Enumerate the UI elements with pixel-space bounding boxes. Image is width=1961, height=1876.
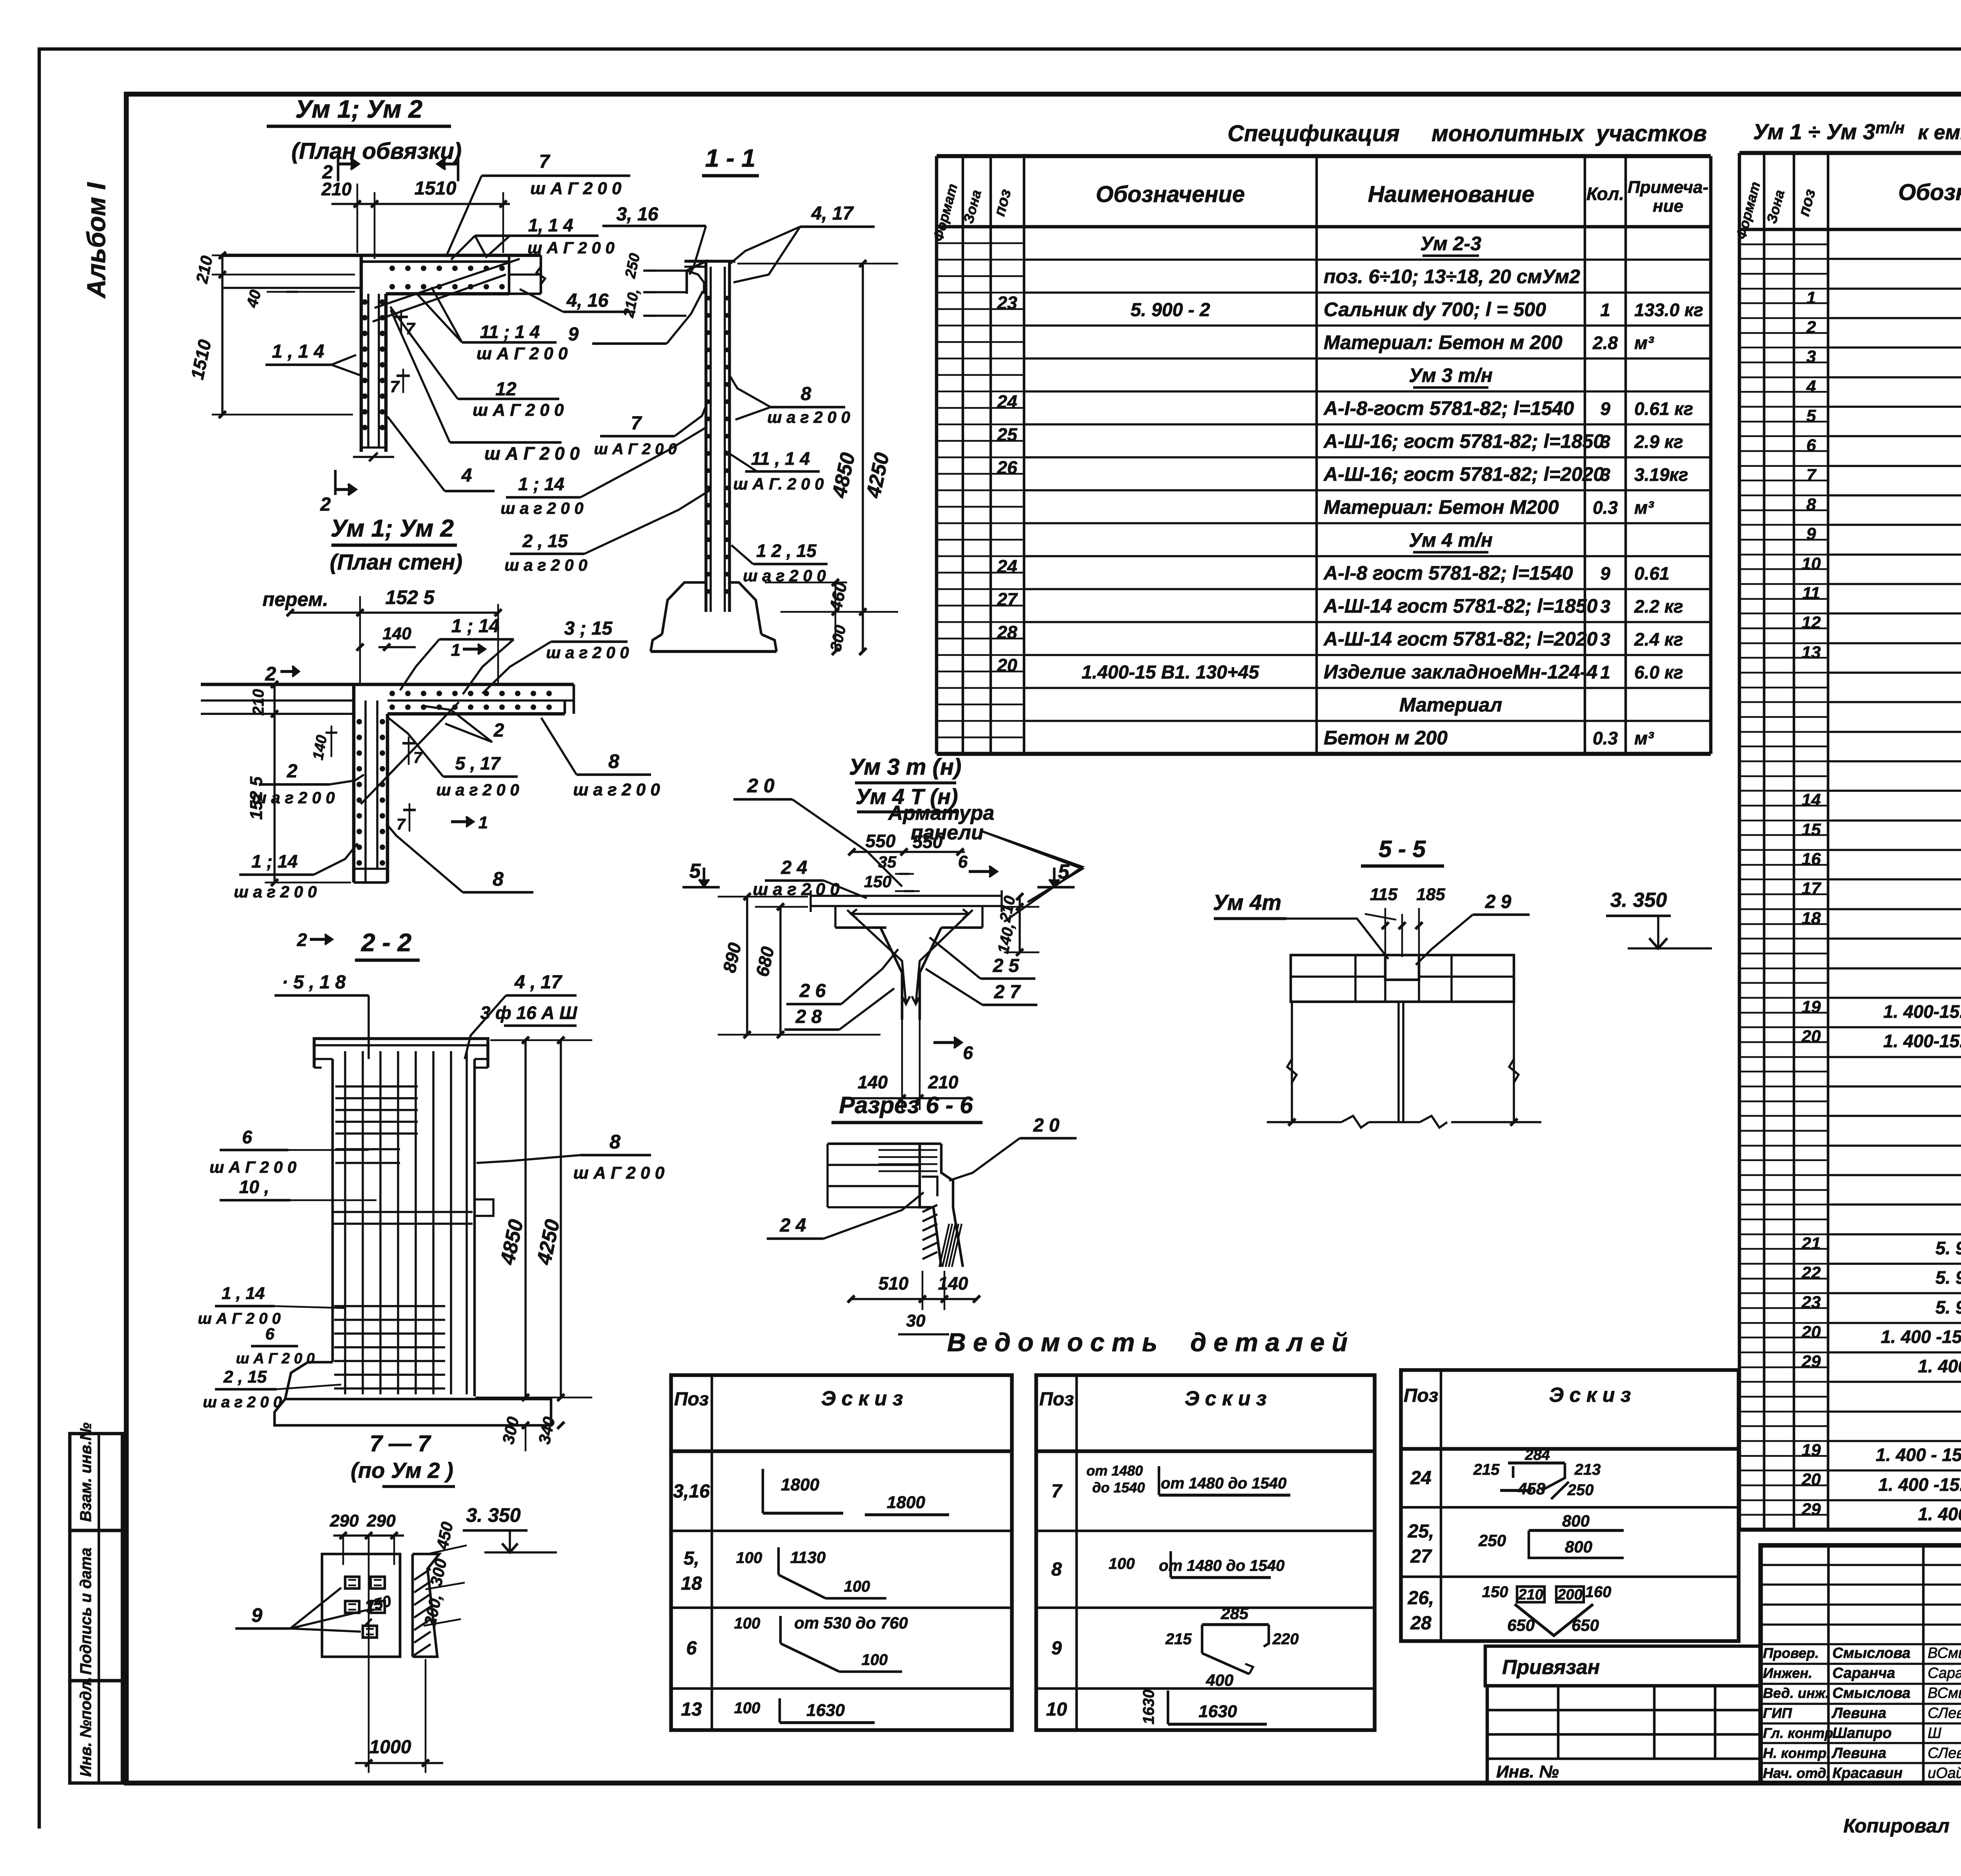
svg-text:12: 12 [1802, 613, 1821, 632]
5-5 slab [1291, 955, 1514, 1002]
7-7 wall section hatched [399, 1554, 402, 1657]
svg-text:Шапиро: Шапиро [1832, 1725, 1892, 1741]
svg-text:9: 9 [1600, 563, 1610, 584]
svg-text:17: 17 [1802, 879, 1822, 898]
svg-text:2: 2 [322, 162, 333, 183]
svg-text:ГИП: ГИП [1763, 1705, 1792, 1721]
svg-text:550: 550 [913, 832, 943, 852]
5-5 below joint [1397, 1002, 1400, 1122]
svg-text:Ум 1; Ум 2: Ум 1; Ум 2 [295, 95, 422, 123]
svg-text:ш А Г 2 0 0: ш А Г 2 0 0 [528, 238, 615, 257]
svg-text:0.3: 0.3 [1593, 497, 1618, 518]
svg-text:1 , 1 4: 1 , 1 4 [272, 341, 324, 362]
svg-text:20: 20 [997, 655, 1017, 675]
svg-text:35: 35 [878, 853, 897, 871]
svg-text:213: 213 [1574, 1461, 1601, 1478]
svg-text:9: 9 [251, 1604, 262, 1626]
svg-text:Левина: Левина [1831, 1705, 1886, 1721]
svg-text:(План стен): (План стен) [330, 550, 462, 574]
svg-text:215: 215 [1473, 1461, 1500, 1478]
svg-text:от 1480 до 1540: от 1480 до 1540 [1161, 1475, 1286, 1492]
svg-text:650: 650 [1507, 1616, 1535, 1634]
svg-text:Привязан: Привязан [1502, 1656, 1600, 1679]
svg-text:9: 9 [1806, 524, 1816, 544]
svg-text:· 5 , 1 8: · 5 , 1 8 [282, 972, 346, 993]
svg-text:Бетон м 200: Бетон м 200 [1324, 727, 1448, 749]
svg-text:ш а г 2 0 0: ш а г 2 0 0 [436, 781, 519, 799]
svg-text:Наименование: Наименование [1368, 182, 1534, 207]
svg-text:А-Ш-16; гост 5781-82; l=2020: А-Ш-16; гост 5781-82; l=2020 [1323, 463, 1604, 485]
svg-text:Инв. №: Инв. № [1496, 1762, 1559, 1781]
svg-text:2 9: 2 9 [1485, 892, 1512, 912]
plan obvyazki rebar dots [389, 266, 395, 271]
svg-text:А-Ш-14 гост 5781-82; l=1850: А-Ш-14 гост 5781-82; l=1850 [1323, 595, 1598, 617]
um3t dims left 890 680 [746, 896, 748, 1035]
plan obvyazki walls [221, 254, 541, 257]
svg-text:1130: 1130 [790, 1548, 826, 1567]
left margin box Podpis i data [70, 1530, 122, 1681]
svg-text:ш А Г 2 0 0: ш А Г 2 0 0 [530, 179, 622, 198]
svg-text:1. 400-15. В1. 130- 45: 1. 400-15. В1. 130- 45 [1883, 1031, 1961, 1051]
svg-text:152 5: 152 5 [385, 586, 435, 608]
svg-text:3: 3 [1600, 464, 1610, 485]
svg-text:Спецификация: Спецификация [1228, 121, 1400, 146]
svg-text:Изделие закладноеМн-124-4: Изделие закладноеМн-124-4 [1324, 661, 1597, 683]
svg-text:ш А Г 2 0 0: ш А Г 2 0 0 [209, 1158, 297, 1176]
svg-text:ш а г 2 0 0: ш а г 2 0 0 [546, 643, 629, 662]
svg-text:10: 10 [1046, 1699, 1067, 1720]
svg-text:7: 7 [406, 319, 415, 338]
svg-text:Вед. инж.: Вед. инж. [1763, 1685, 1829, 1701]
svg-text:140: 140 [938, 1273, 968, 1294]
svg-text:210: 210 [1518, 1587, 1543, 1603]
svg-text:115: 115 [1370, 885, 1398, 904]
svg-text:100: 100 [734, 1699, 760, 1717]
svg-text:13: 13 [681, 1699, 702, 1720]
um3t funnel [880, 928, 902, 1020]
2-2 dims right [524, 1039, 527, 1398]
svg-text:Красавин: Красавин [1832, 1765, 1903, 1781]
svg-text:ш А Г 2 0 0: ш А Г 2 0 0 [594, 440, 677, 458]
2-2 right tab [475, 1199, 493, 1216]
svg-text:18: 18 [681, 1573, 702, 1594]
svg-text:Смыслова: Смыслова [1832, 1685, 1910, 1701]
svg-text:Саран: Саран [1928, 1665, 1961, 1681]
svg-text:монолитных: монолитных [1432, 121, 1585, 146]
svg-text:20: 20 [1801, 1470, 1821, 1489]
svg-text:ш а г 2 0 0: ш а г 2 0 0 [500, 499, 584, 517]
svg-text:2 7: 2 7 [994, 982, 1021, 1003]
svg-text:Инжен.: Инжен. [1763, 1665, 1812, 1681]
svg-text:100: 100 [844, 1578, 870, 1595]
sketch table 1 [671, 1375, 1012, 1730]
svg-text:1 2 , 15: 1 2 , 15 [756, 540, 817, 561]
svg-text:1. 400 -15. В1, 130 - 45: 1. 400 -15. В1, 130 - 45 [1878, 1474, 1961, 1495]
svg-text:650: 650 [1572, 1616, 1599, 1634]
svg-text:Ш: Ш [1928, 1725, 1941, 1741]
1-1 dim 460 300 [835, 582, 837, 612]
svg-text:3 ф 16 А Ш: 3 ф 16 А Ш [480, 1003, 578, 1023]
svg-text:510: 510 [879, 1273, 909, 1294]
svg-text:5. 900 - 2: 5. 900 - 2 [1936, 1238, 1961, 1258]
um3t arrows in funnel [902, 996, 910, 1004]
svg-text:Обозначение: Обозначение [1898, 180, 1961, 205]
svg-text:1800: 1800 [887, 1493, 925, 1512]
svg-text:19: 19 [1802, 997, 1821, 1017]
2-2 vertical rebars [344, 1051, 346, 1394]
svg-text:3. 350: 3. 350 [1610, 889, 1667, 912]
sketch table 2 [1036, 1375, 1375, 1730]
svg-text:19: 19 [1802, 1441, 1821, 1460]
svg-text:ВСмы: ВСмы [1928, 1645, 1961, 1661]
svg-text:400: 400 [1206, 1671, 1233, 1689]
svg-text:Э с к и з: Э с к и з [1549, 1384, 1631, 1407]
svg-text:Поз: Поз [1404, 1385, 1438, 1406]
svg-text:1: 1 [1600, 662, 1610, 682]
5-5 bottom line [1267, 1121, 1341, 1123]
svg-text:Инв. №подл.: Инв. №подл. [77, 1677, 95, 1777]
svg-text:Альбом I: Альбом I [82, 182, 111, 299]
plan sten dim left 210 1525 [273, 684, 276, 883]
svg-text:2 6: 2 6 [799, 981, 826, 1001]
svg-text:Саранча: Саранча [1832, 1665, 1895, 1681]
svg-text:8: 8 [493, 868, 504, 890]
svg-text:ш А Г. 2 0 0: ш А Г. 2 0 0 [733, 475, 824, 493]
svg-text:Взам. инв.№: Взам. инв.№ [77, 1423, 95, 1522]
dim 210 1510 top [331, 203, 510, 205]
svg-text:12: 12 [495, 379, 517, 400]
svg-text:160: 160 [1585, 1583, 1612, 1601]
svg-text:до 1540: до 1540 [1092, 1479, 1145, 1496]
svg-text:д е т а л е й: д е т а л е й [1190, 1328, 1348, 1357]
svg-text:1. 400 - 6 / 76: 1. 400 - 6 / 76 [1918, 1356, 1961, 1376]
svg-text:А-Ш-16; гост 5781-82; l=1850: А-Ш-16; гост 5781-82; l=1850 [1323, 430, 1604, 452]
svg-text:6: 6 [265, 1325, 275, 1343]
svg-text:1 , 14: 1 , 14 [222, 1284, 265, 1303]
svg-text:6.0 кг: 6.0 кг [1634, 662, 1683, 682]
svg-text:5: 5 [1806, 406, 1816, 426]
svg-text:15: 15 [1802, 820, 1821, 839]
svg-text:7: 7 [413, 749, 423, 766]
svg-text:3: 3 [1600, 629, 1610, 650]
svg-text:1 ; 14: 1 ; 14 [251, 851, 298, 872]
svg-text:1630: 1630 [806, 1701, 845, 1720]
svg-text:250: 250 [1567, 1481, 1594, 1499]
svg-text:2 4: 2 4 [781, 857, 808, 878]
svg-text:100: 100 [734, 1615, 760, 1632]
svg-text:9: 9 [1600, 398, 1610, 419]
svg-text:участков: участков [1595, 121, 1707, 146]
svg-text:2: 2 [265, 663, 276, 685]
2-2 foundation [285, 1362, 333, 1399]
svg-text:550: 550 [866, 831, 896, 851]
svg-text:1630: 1630 [1140, 1690, 1157, 1725]
svg-text:4, 16: 4, 16 [566, 290, 609, 311]
svg-text:3. 350: 3. 350 [466, 1504, 520, 1526]
svg-text:2 , 15: 2 , 15 [223, 1367, 267, 1387]
svg-text:1.400-15 В1. 130+45: 1.400-15 В1. 130+45 [1082, 662, 1260, 683]
svg-text:Поз: Поз [674, 1389, 709, 1410]
svg-text:13: 13 [1802, 643, 1821, 662]
svg-text:0.61 кг: 0.61 кг [1634, 398, 1693, 419]
svg-text:ш А Г 2 0 0: ш А Г 2 0 0 [484, 443, 580, 464]
svg-text:1: 1 [1600, 300, 1610, 320]
specification table left [935, 156, 939, 754]
svg-text:3 ; 15: 3 ; 15 [564, 618, 613, 639]
svg-text:3,16: 3,16 [673, 1481, 710, 1502]
svg-text:4: 4 [461, 465, 472, 486]
svg-text:5. 900 - 2: 5. 900 - 2 [1936, 1267, 1961, 1288]
svg-text:140: 140 [858, 1072, 888, 1092]
svg-text:23: 23 [1801, 1293, 1821, 1312]
svg-text:290: 290 [329, 1511, 359, 1530]
2-2 horizontal rebars upper [335, 1085, 418, 1088]
svg-text:1000: 1000 [369, 1737, 411, 1758]
svg-text:5,: 5, [684, 1548, 699, 1569]
svg-text:2 4: 2 4 [780, 1215, 806, 1236]
svg-text:Провер.: Провер. [1763, 1645, 1819, 1661]
svg-text:133.0 кг: 133.0 кг [1634, 300, 1703, 320]
7-7 dim 1000 [368, 1628, 370, 1773]
svg-text:1: 1 [451, 640, 460, 660]
svg-text:ш А Г 2 0 0: ш А Г 2 0 0 [236, 1350, 315, 1367]
svg-text:м³: м³ [1634, 728, 1654, 748]
svg-text:100: 100 [862, 1651, 888, 1669]
svg-text:26: 26 [997, 457, 1017, 478]
svg-text:28: 28 [1410, 1613, 1432, 1634]
svg-text:Сальник dy 700; l = 500: Сальник dy 700; l = 500 [1324, 298, 1546, 320]
2-2 horizontal rebars lower [334, 1305, 445, 1307]
svg-text:6: 6 [686, 1638, 697, 1659]
svg-text:перем.: перем. [262, 588, 328, 610]
svg-text:ш а г 2 0 0: ш а г 2 0 0 [767, 408, 850, 426]
um3t dims right 210 140 [1019, 896, 1021, 953]
svg-text:2: 2 [320, 494, 331, 515]
svg-text:0.3: 0.3 [1593, 728, 1618, 748]
svg-text:7: 7 [390, 377, 400, 396]
svg-text:10: 10 [1802, 554, 1821, 573]
svg-text:210: 210 [928, 1072, 959, 1092]
svg-text:200: 200 [1557, 1587, 1582, 1603]
um3t mark 6 bottom [933, 1041, 961, 1044]
svg-text:Ум 1; Ум 2: Ум 1; Ум 2 [331, 515, 454, 542]
svg-text:20: 20 [1801, 1323, 1821, 1342]
svg-text:18: 18 [1802, 909, 1821, 928]
um3t slab [811, 895, 1002, 897]
svg-text:0.61: 0.61 [1634, 563, 1670, 584]
svg-text:1. 400-15. В1. 120- 65: 1. 400-15. В1. 120- 65 [1883, 1001, 1961, 1022]
svg-text:6: 6 [242, 1127, 252, 1147]
svg-text:от 530 до 760: от 530 до 760 [794, 1614, 908, 1632]
svg-text:5 - 5: 5 - 5 [1379, 836, 1426, 862]
specification table right [1738, 153, 1741, 1530]
left margin box Inv N podl [70, 1681, 122, 1783]
svg-text:3, 16: 3, 16 [617, 204, 659, 225]
svg-text:6: 6 [1806, 436, 1816, 455]
sketch table 3 [1401, 1370, 1739, 1641]
svg-text:ние: ние [1653, 197, 1683, 216]
um3t mark 6 top [969, 870, 996, 873]
plan sten dim 140 [331, 726, 333, 757]
svg-text:ш А Г 2 0 0: ш А Г 2 0 0 [573, 1163, 665, 1183]
svg-text:5 , 17: 5 , 17 [455, 753, 501, 773]
svg-text:20: 20 [1801, 1027, 1821, 1046]
svg-text:Смыслова: Смыслова [1832, 1645, 1910, 1661]
svg-text:11: 11 [1802, 584, 1820, 603]
svg-text:290: 290 [366, 1511, 396, 1530]
svg-text:5. 900 - 2: 5. 900 - 2 [1131, 300, 1210, 320]
svg-text:140: 140 [382, 624, 411, 643]
dim 40 small [267, 291, 355, 293]
svg-text:1 ; 14: 1 ; 14 [518, 474, 564, 494]
svg-text:16: 16 [1802, 850, 1821, 869]
svg-text:2 , 15: 2 , 15 [522, 531, 568, 551]
svg-text:от 1480: от 1480 [1086, 1463, 1143, 1479]
svg-text:4: 4 [1806, 377, 1816, 396]
svg-text:ш А Г 2 0 0: ш А Г 2 0 0 [473, 400, 564, 420]
svg-text:2.9 кг: 2.9 кг [1634, 431, 1683, 452]
svg-text:2.4 кг: 2.4 кг [1634, 629, 1683, 650]
plan sten small 7 markers [408, 737, 410, 765]
svg-text:Обозначение: Обозначение [1096, 182, 1245, 207]
svg-text:Н. контр.: Н. контр. [1763, 1745, 1830, 1761]
bottom tick of wall [353, 456, 394, 458]
plan sten walls [201, 683, 574, 686]
plan sten mark 1 top [463, 648, 484, 651]
svg-text:иОай: иОай [1928, 1765, 1961, 1781]
svg-text:1800: 1800 [781, 1475, 819, 1494]
svg-text:210: 210 [250, 689, 267, 716]
svg-text:23: 23 [997, 293, 1017, 313]
svg-text:Э с к и з: Э с к и з [821, 1387, 903, 1410]
svg-text:5. 900 - 2: 5. 900 - 2 [1936, 1297, 1961, 1317]
svg-text:284: 284 [1524, 1447, 1550, 1463]
svg-text:25,: 25, [1408, 1521, 1434, 1542]
svg-text:3: 3 [1806, 347, 1816, 366]
svg-text:100: 100 [1109, 1555, 1135, 1572]
section mark 1 top [457, 157, 460, 181]
svg-text:3: 3 [1600, 596, 1610, 617]
svg-text:1 - 1: 1 - 1 [705, 144, 755, 172]
plan sten diagonal [361, 702, 459, 804]
razrez 6-6 body [828, 1143, 941, 1145]
svg-text:1510: 1510 [415, 178, 457, 199]
svg-text:ш а г 2 0 0: ш а г 2 0 0 [203, 1394, 282, 1411]
svg-text:14: 14 [1802, 790, 1821, 810]
svg-text:Материал: Материал [1399, 694, 1502, 716]
svg-text:А-Ш-14 гост 5781-82; l=2020: А-Ш-14 гост 5781-82; l=2020 [1323, 628, 1598, 650]
svg-text:29: 29 [1801, 1500, 1821, 1519]
svg-text:29: 29 [1801, 1352, 1821, 1371]
svg-text:4, 17: 4, 17 [811, 203, 854, 224]
svg-text:1: 1 [478, 813, 488, 832]
plan sten dots [389, 691, 395, 696]
svg-text:Материал: Бетон м 200: Материал: Бетон м 200 [1324, 331, 1563, 353]
svg-text:1: 1 [1806, 288, 1816, 308]
svg-text:Ум 2-3: Ум 2-3 [1420, 233, 1481, 255]
svg-text:150: 150 [864, 872, 891, 891]
svg-text:2: 2 [287, 761, 298, 782]
svg-text:1. 400 - 15. В1,12 0 - 65: 1. 400 - 15. В1,12 0 - 65 [1876, 1445, 1961, 1465]
svg-text:3.19кг: 3.19кг [1634, 464, 1688, 485]
svg-text:3: 3 [1600, 431, 1610, 452]
svg-text:1, 1 4: 1, 1 4 [528, 215, 573, 235]
1-1 dim 4850 4250 [862, 263, 864, 651]
leader shag 200 lower [450, 441, 562, 444]
svg-text:2.8: 2.8 [1592, 333, 1618, 353]
svg-text:Поз: Поз [1039, 1389, 1074, 1410]
svg-text:СЛевин: СЛевин [1928, 1745, 1961, 1761]
svg-text:28: 28 [997, 622, 1017, 642]
svg-text:к емкостям: к емкостям [1918, 121, 1961, 144]
svg-text:м³: м³ [1634, 333, 1654, 353]
plan obvyazki vertical band [360, 255, 363, 452]
2-2 horizontal rebars mid [333, 1211, 473, 1213]
svg-text:4 , 17: 4 , 17 [514, 972, 562, 993]
sketch 3,16 [762, 1469, 764, 1513]
svg-text:Левина: Левина [1831, 1745, 1886, 1761]
svg-text:1. 400 - 6 / 76: 1. 400 - 6 / 76 [1918, 1504, 1961, 1524]
svg-text:27: 27 [997, 589, 1018, 610]
svg-text:ш А Г 2 0 0: ш А Г 2 0 0 [477, 344, 568, 363]
svg-text:1630: 1630 [1199, 1702, 1237, 1721]
title block outer [1761, 1545, 1961, 1783]
svg-text:Нач. отд.: Нач. отд. [1763, 1765, 1830, 1781]
bottom section mark 2 [334, 470, 337, 495]
svg-text:2 0: 2 0 [747, 775, 775, 797]
svg-text:250: 250 [1478, 1531, 1506, 1550]
section mark 2 top [337, 157, 340, 181]
svg-text:458: 458 [1517, 1479, 1546, 1498]
7-7 plates [345, 1577, 359, 1589]
svg-text:22: 22 [1801, 1263, 1821, 1283]
svg-text:(по Ум 2 ): (по Ум 2 ) [351, 1458, 453, 1483]
section 1-1 top small lines [643, 269, 688, 272]
svg-text:2: 2 [297, 930, 307, 950]
svg-text:м³: м³ [1634, 497, 1654, 518]
svg-text:800: 800 [1565, 1538, 1592, 1556]
svg-text:от 1480 до 1540: от 1480 до 1540 [1159, 1557, 1284, 1574]
svg-text:1 ; 14: 1 ; 14 [451, 616, 500, 637]
svg-text:11 , 1 4: 11 , 1 4 [751, 448, 810, 469]
svg-text:Материал: Бетон М200: Материал: Бетон М200 [1324, 496, 1559, 518]
svg-text:ВСмы: ВСмы [1928, 1685, 1961, 1701]
svg-text:27: 27 [1410, 1546, 1432, 1567]
svg-text:7 — 7: 7 — 7 [370, 1431, 431, 1456]
svg-text:ш а г 2 0 0: ш а г 2 0 0 [504, 556, 588, 574]
svg-text:285: 285 [1221, 1604, 1249, 1623]
section 1-1 column [687, 261, 706, 294]
um3t rebar X [847, 910, 906, 1004]
svg-text:11 ; 1 4: 11 ; 1 4 [480, 322, 540, 342]
svg-text:24: 24 [997, 391, 1017, 412]
svg-text:2.2 кг: 2.2 кг [1634, 596, 1683, 617]
svg-text:24: 24 [1410, 1468, 1431, 1488]
svg-text:2 5: 2 5 [993, 955, 1020, 976]
svg-text:2: 2 [493, 720, 504, 741]
svg-text:Копировал: Копировал [1843, 1815, 1950, 1837]
svg-text:25: 25 [997, 424, 1018, 445]
svg-text:10 ,: 10 , [239, 1177, 269, 1197]
svg-text:СЛевин: СЛевин [1928, 1705, 1961, 1721]
svg-text:26,: 26, [1408, 1588, 1434, 1609]
svg-text:100: 100 [736, 1549, 762, 1567]
plan sten mark 1 bottom [451, 820, 473, 823]
svg-text:7: 7 [397, 816, 406, 833]
svg-text:ш а г 2 0 0: ш а г 2 0 0 [573, 780, 660, 799]
left margin box Vzam inv [70, 1434, 122, 1530]
section 1-1 foundation [662, 582, 706, 634]
